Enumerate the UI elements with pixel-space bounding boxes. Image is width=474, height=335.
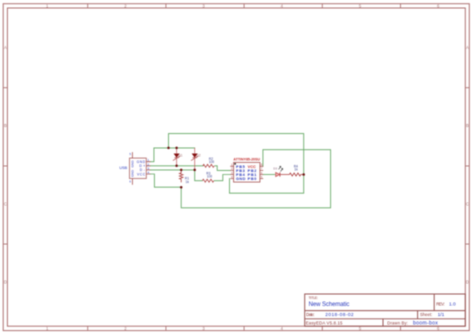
svg-text:boom-box: boom-box [413, 321, 438, 327]
svg-text:REV:: REV: [436, 301, 444, 306]
svg-text:C: C [4, 201, 7, 206]
svg-text:C: C [466, 201, 469, 206]
svg-text:Sheet:: Sheet: [420, 312, 432, 317]
svg-text:B: B [466, 123, 469, 128]
svg-text:1k: 1k [294, 168, 298, 172]
svg-text:100: 100 [207, 175, 213, 179]
svg-text:1k: 1k [186, 180, 190, 184]
svg-text:A: A [4, 45, 7, 50]
svg-text:USB: USB [119, 166, 127, 170]
svg-text:ATTINY85-20SU: ATTINY85-20SU [233, 157, 260, 161]
svg-text:Date:: Date: [306, 312, 314, 317]
svg-text:1.0: 1.0 [449, 302, 456, 308]
svg-text:1/1: 1/1 [438, 312, 445, 318]
svg-text:100: 100 [209, 160, 215, 164]
svg-text:GND: GND [236, 177, 246, 181]
svg-text:PB0: PB0 [248, 177, 257, 181]
svg-text:EasyEDA V5.8.15: EasyEDA V5.8.15 [306, 321, 343, 326]
svg-text:A: A [466, 45, 469, 50]
svg-text:VCC: VCC [137, 172, 146, 176]
svg-text:B: B [4, 123, 7, 128]
svg-text:GND: GND [130, 169, 134, 177]
svg-text:GND: GND [130, 160, 134, 168]
svg-text:D1: D1 [178, 154, 182, 158]
svg-text:New Schematic: New Schematic [309, 302, 350, 308]
svg-text:D2: D2 [196, 154, 200, 158]
svg-text:D3: D3 [273, 166, 277, 170]
svg-text:VCC: VCC [248, 165, 256, 169]
svg-text:TITLE:: TITLE: [309, 296, 319, 300]
svg-text:D: D [466, 280, 469, 285]
svg-text:D: D [4, 280, 7, 285]
svg-text:2018-08-02: 2018-08-02 [325, 312, 354, 318]
svg-text:Drawn By:: Drawn By: [387, 321, 408, 326]
